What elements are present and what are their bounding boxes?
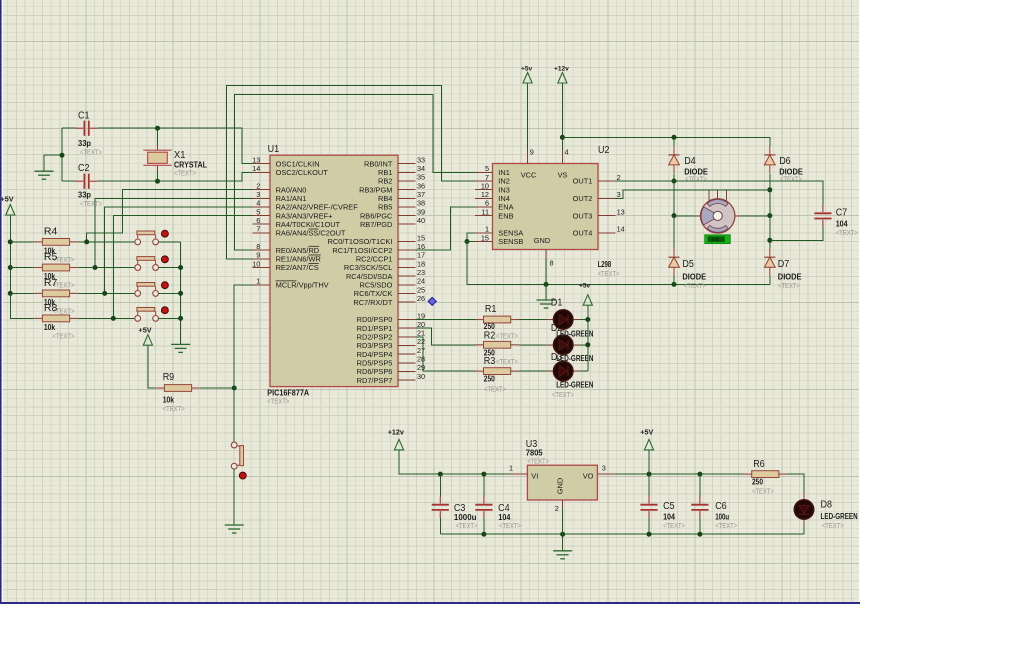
U1 pin 3 RA1/AN1 bbox=[253, 197, 270, 199]
diode D6 bbox=[764, 146, 775, 174]
svg-text:5: 5 bbox=[485, 164, 489, 173]
diode D5 bbox=[668, 248, 679, 276]
U2 pin 10 IN3 bbox=[475, 189, 492, 191]
wire +12v to VI row bbox=[399, 450, 510, 474]
resistor R8 bbox=[34, 315, 78, 322]
junction bbox=[481, 532, 486, 537]
svg-text:14: 14 bbox=[617, 225, 625, 234]
svg-text:15: 15 bbox=[481, 233, 489, 242]
svg-text:14: 14 bbox=[252, 164, 260, 173]
wire rail to R4 bbox=[10, 241, 34, 243]
svg-text:RD6/PSP6: RD6/PSP6 bbox=[357, 367, 393, 376]
svg-text:SENSB: SENSB bbox=[498, 237, 523, 246]
svg-text:RA4/T0CKI/C1OUT: RA4/T0CKI/C1OUT bbox=[276, 220, 341, 229]
U3 pin 1 VI bbox=[510, 473, 527, 475]
junction bbox=[8, 291, 13, 296]
svg-text:IN3: IN3 bbox=[498, 185, 510, 194]
wire C1-C2 left vertical bbox=[61, 128, 63, 181]
svg-text:2: 2 bbox=[256, 181, 260, 190]
wire R2 to D2 bbox=[519, 344, 546, 346]
U1 pin 7 RA6/AN4/SS/C2OUT bbox=[253, 232, 270, 234]
svg-text:OSC2/CLKOUT: OSC2/CLKOUT bbox=[276, 168, 329, 177]
U2 pin 14 OUT4 bbox=[598, 232, 615, 234]
U2 pin 13 OUT3 bbox=[598, 215, 615, 217]
U1 pin 27 RD4/PSP4 bbox=[398, 353, 415, 355]
junction bbox=[697, 532, 702, 537]
wire R8 to button bbox=[78, 317, 135, 319]
power +5v LED rail bbox=[583, 295, 592, 306]
U1 pin 28 RD5/PSP5 bbox=[398, 362, 415, 364]
svg-text:38: 38 bbox=[417, 199, 425, 208]
U1 pin 13 OSC1/CLKIN bbox=[253, 163, 270, 165]
junction bbox=[697, 472, 702, 477]
junction bbox=[60, 153, 65, 158]
U2 pin 5 IN1 bbox=[475, 171, 492, 173]
svg-text:<TEXT>: <TEXT> bbox=[598, 269, 620, 278]
svg-text:RC3/SCK/SCL: RC3/SCK/SCL bbox=[344, 263, 392, 272]
junction bbox=[8, 239, 13, 244]
U1 pin 18 RC3/SCK/SCL bbox=[398, 267, 415, 269]
svg-text:RC7/RX/DT: RC7/RX/DT bbox=[353, 298, 392, 307]
svg-text:ENA: ENA bbox=[498, 203, 513, 212]
resistor R6 bbox=[744, 471, 788, 478]
junction bbox=[585, 317, 590, 322]
wire motor left bbox=[674, 215, 695, 217]
svg-text:RC5/SDO: RC5/SDO bbox=[360, 281, 393, 290]
junction bbox=[585, 342, 590, 347]
U1 pin 8 RE0/AN5/RD bbox=[253, 249, 270, 251]
U1 pin 37 RB4 bbox=[398, 197, 415, 199]
junction bbox=[232, 386, 237, 391]
U1 pin 14 OSC2/CLKOUT bbox=[253, 171, 270, 173]
wire button to ground bbox=[233, 469, 235, 524]
svg-text:R1: R1 bbox=[485, 304, 497, 315]
ground button rail bbox=[171, 344, 190, 352]
svg-text:RB7/PGD: RB7/PGD bbox=[360, 220, 392, 229]
svg-text:MCLR/Vpp/THV: MCLR/Vpp/THV bbox=[276, 281, 329, 290]
svg-text:1: 1 bbox=[256, 277, 260, 286]
wire U3 GND down bbox=[562, 509, 564, 551]
svg-text:OUT3: OUT3 bbox=[573, 211, 593, 220]
capacitor C6 bbox=[691, 497, 708, 519]
wire C6 top bbox=[699, 474, 701, 497]
svg-text:<TEXT>: <TEXT> bbox=[80, 199, 102, 208]
wire SENSB bbox=[467, 242, 475, 285]
svg-text:RD7/PSP7: RD7/PSP7 bbox=[357, 376, 393, 385]
capacitor C1 bbox=[76, 121, 98, 136]
svg-text:LED-GREEN: LED-GREEN bbox=[821, 512, 858, 521]
crystal X1 bbox=[143, 145, 171, 170]
junction crystal bottom bbox=[155, 179, 160, 184]
junction crystal top bbox=[155, 126, 160, 131]
svg-text:<TEXT>: <TEXT> bbox=[780, 175, 802, 184]
svg-text:13: 13 bbox=[252, 155, 260, 164]
power +12v above VS bbox=[558, 73, 567, 84]
wire D2 to +5v rail bbox=[580, 344, 588, 346]
svg-text:250: 250 bbox=[484, 375, 496, 384]
junction bbox=[672, 135, 677, 140]
wire crystal bottom lead bbox=[157, 170, 159, 181]
wire D8 to rail bbox=[803, 527, 805, 535]
wire bottom ground rail bbox=[440, 533, 804, 535]
ground reset button bbox=[225, 525, 244, 533]
svg-text:9: 9 bbox=[530, 148, 534, 157]
svg-text:10: 10 bbox=[252, 259, 260, 268]
resistor R3 bbox=[475, 368, 519, 375]
svg-text:R8: R8 bbox=[44, 302, 58, 314]
junction bbox=[560, 532, 565, 537]
svg-text:24: 24 bbox=[417, 277, 425, 286]
resistor R2 bbox=[475, 341, 519, 348]
svg-text:RB3/PGM: RB3/PGM bbox=[359, 185, 392, 194]
wire motor right bbox=[740, 215, 770, 217]
wire C7 bottom to D6 leg bbox=[770, 226, 823, 240]
U2 pin 3 OUT2 bbox=[598, 197, 615, 199]
resistor R4 bbox=[34, 239, 78, 246]
U2 pin 4 VS bbox=[561, 150, 563, 163]
junction bbox=[93, 265, 98, 270]
svg-text:D1: D1 bbox=[551, 298, 563, 309]
svg-text:<TEXT>: <TEXT> bbox=[663, 521, 685, 530]
svg-text:33: 33 bbox=[417, 155, 425, 164]
ground near C1/C2 bbox=[35, 171, 54, 179]
svg-text:RD4/PSP4: RD4/PSP4 bbox=[357, 350, 393, 359]
wire OUT2 jog to D6 leg bbox=[615, 190, 769, 199]
wire +5V left rail bbox=[10, 215, 34, 318]
svg-text:X1: X1 bbox=[174, 150, 186, 161]
wire R4 to button bbox=[78, 241, 135, 243]
svg-text:IN1: IN1 bbox=[498, 168, 510, 177]
wire crystal top lead bbox=[157, 128, 159, 145]
svg-text:RB2: RB2 bbox=[378, 177, 392, 186]
wire +5V down bbox=[648, 450, 650, 474]
svg-text:<TEXT>: <TEXT> bbox=[496, 357, 518, 366]
svg-text:R6: R6 bbox=[753, 459, 765, 470]
wire C4 top bbox=[483, 474, 485, 497]
wire +12v rail to D6 bbox=[562, 137, 769, 146]
svg-text:D8: D8 bbox=[821, 500, 833, 511]
svg-text:<TEXT>: <TEXT> bbox=[456, 521, 478, 530]
svg-text:D7: D7 bbox=[778, 259, 790, 270]
cursor marker bbox=[428, 298, 436, 306]
wire R6 to D8 bbox=[787, 474, 804, 492]
wire RD0 to R1 bbox=[415, 319, 475, 321]
U1 pin 24 RC5/SDO bbox=[398, 284, 415, 286]
svg-text:+5V: +5V bbox=[139, 326, 152, 335]
capacitor C4 bbox=[475, 497, 492, 519]
diode D4 bbox=[668, 146, 679, 174]
U2 pin 7 IN2 bbox=[475, 180, 492, 182]
svg-text:11: 11 bbox=[481, 207, 489, 216]
wire button row 1 to rail bbox=[159, 241, 181, 243]
svg-text:4: 4 bbox=[565, 148, 569, 157]
capacitor C5 bbox=[640, 497, 657, 519]
svg-text:16: 16 bbox=[417, 242, 425, 251]
junction bbox=[84, 239, 89, 244]
svg-text:40: 40 bbox=[417, 216, 425, 225]
svg-text:C6: C6 bbox=[715, 501, 727, 512]
motor speed display bbox=[705, 235, 730, 244]
wire RA2 from R7 bbox=[105, 207, 253, 294]
U2 pin 1 SENSA bbox=[475, 232, 492, 234]
wire RA1 from R5 bbox=[95, 198, 253, 267]
junction bbox=[672, 179, 677, 184]
svg-text:+5v: +5v bbox=[521, 66, 533, 73]
svg-text:D4: D4 bbox=[684, 156, 696, 167]
junction bbox=[647, 532, 652, 537]
U1 pin 1 MCLR/Vpp/THV bbox=[253, 284, 270, 286]
svg-text:C7: C7 bbox=[836, 208, 848, 219]
wire +5V to R9 bbox=[148, 345, 156, 388]
svg-text:<TEXT>: <TEXT> bbox=[163, 404, 185, 413]
svg-text:3: 3 bbox=[617, 190, 621, 199]
motor M1 bbox=[695, 190, 740, 233]
junction bbox=[178, 316, 183, 321]
ground U3 bbox=[553, 551, 572, 559]
U2 pin 9 VCC bbox=[527, 150, 529, 163]
U1 pin 19 RD0/PSP0 bbox=[398, 319, 415, 321]
wire R7 to button bbox=[78, 292, 135, 294]
svg-text:<TEXT>: <TEXT> bbox=[684, 281, 706, 290]
svg-text:+5V: +5V bbox=[1, 195, 14, 204]
svg-text:2: 2 bbox=[617, 173, 621, 182]
resistor R7 bbox=[34, 290, 78, 297]
wire C1 row to OSC1 bbox=[62, 128, 253, 163]
svg-text:VCC: VCC bbox=[521, 170, 537, 179]
U1 pin 36 RB3/PGM bbox=[398, 189, 415, 191]
resistor R5 bbox=[34, 264, 78, 271]
wire +12v to VS bbox=[561, 83, 563, 150]
wire R9 to MCLR node bbox=[200, 387, 234, 389]
svg-text:GND: GND bbox=[534, 236, 550, 245]
U3 pin 3 VO bbox=[597, 473, 614, 475]
svg-text:6: 6 bbox=[485, 199, 489, 208]
svg-text:RD3/PSP3: RD3/PSP3 bbox=[357, 341, 393, 350]
svg-text:GND: GND bbox=[555, 478, 564, 494]
svg-text:VS: VS bbox=[558, 170, 568, 179]
svg-text:<TEXT>: <TEXT> bbox=[836, 228, 858, 237]
wire ground branch bbox=[44, 155, 62, 171]
wire button row 2 to rail bbox=[159, 267, 181, 269]
wire SENSA jog bbox=[467, 233, 475, 242]
svg-text:<TEXT>: <TEXT> bbox=[496, 332, 518, 341]
power +5v above VCC bbox=[523, 73, 532, 84]
svg-text:<TEXT>: <TEXT> bbox=[822, 521, 844, 530]
U1 pin 6 RA4/T0CKI/C1OUT bbox=[253, 223, 270, 225]
U1 pin 17 RC2/CCP1 bbox=[398, 258, 415, 260]
LED D1 bbox=[546, 310, 580, 329]
wire C5 bottom bbox=[648, 518, 650, 534]
wire R1 to D1 bbox=[519, 319, 546, 321]
power +5V bottom bbox=[644, 439, 653, 450]
svg-text:R2: R2 bbox=[484, 331, 496, 342]
power +12v bottom bbox=[394, 439, 403, 450]
wire button ground rail bbox=[180, 242, 182, 344]
wire C5 top bbox=[648, 474, 650, 497]
svg-text:20: 20 bbox=[417, 320, 425, 329]
junction bbox=[647, 472, 652, 477]
U1 pin 34 RB1 bbox=[398, 171, 415, 173]
svg-text:RB0/INT: RB0/INT bbox=[364, 159, 393, 168]
wire RC1 to ENA bbox=[415, 207, 475, 250]
svg-text:RE0/AN5/RD: RE0/AN5/RD bbox=[276, 246, 320, 255]
wire button row 4 to rail bbox=[159, 317, 181, 319]
svg-text:VI: VI bbox=[531, 472, 538, 481]
LED D3 bbox=[546, 361, 580, 380]
svg-text:RB5: RB5 bbox=[378, 203, 392, 212]
wire VO row bbox=[615, 473, 744, 475]
junction bbox=[465, 239, 470, 244]
junction bbox=[8, 265, 13, 270]
junction bbox=[767, 238, 772, 243]
U2 pin 12 IN4 bbox=[475, 197, 492, 199]
junction bbox=[481, 472, 486, 477]
wire C3 bottom bbox=[439, 518, 441, 534]
wire D4-D5 leg bbox=[673, 174, 675, 249]
op-amp U2 body (L298) bbox=[493, 164, 599, 250]
svg-text:RE2/AN7/CS: RE2/AN7/CS bbox=[276, 263, 319, 272]
junction bbox=[178, 265, 183, 270]
push button reset bbox=[231, 442, 246, 479]
junction bbox=[544, 282, 549, 287]
U2 pin 2 OUT1 bbox=[598, 180, 615, 182]
svg-text:<TEXT>: <TEXT> bbox=[778, 281, 800, 290]
svg-text:36: 36 bbox=[417, 181, 425, 190]
U1 pin 4 RA2/AN2/VREF-/CVREF bbox=[253, 206, 270, 208]
junction bbox=[767, 213, 772, 218]
wire D3 to +5v rail bbox=[580, 370, 588, 372]
svg-text:4: 4 bbox=[256, 199, 260, 208]
svg-text:<TEXT>: <TEXT> bbox=[174, 169, 196, 178]
svg-text:R3: R3 bbox=[484, 356, 496, 367]
U3 pin 2 GND bbox=[562, 500, 564, 509]
svg-text:10: 10 bbox=[481, 181, 489, 190]
svg-text:22: 22 bbox=[417, 337, 425, 346]
svg-text:R4: R4 bbox=[44, 225, 58, 237]
U1 pin 5 RA3/AN3/VREF+ bbox=[253, 215, 270, 217]
svg-text:26: 26 bbox=[417, 294, 425, 303]
U1 pin 40 RB7/PGD bbox=[398, 223, 415, 225]
svg-text:<TEXT>: <TEXT> bbox=[267, 397, 289, 406]
wire OUT1 to C7 top bbox=[615, 181, 823, 205]
svg-text:R9: R9 bbox=[163, 372, 175, 383]
svg-text:<TEXT>: <TEXT> bbox=[752, 487, 774, 496]
U1 pin 20 RD1/PSP1 bbox=[398, 327, 415, 329]
U1 pin 25 RC6/TX/CK bbox=[398, 293, 415, 295]
svg-text:<TEXT>: <TEXT> bbox=[80, 148, 102, 157]
svg-text:VO: VO bbox=[583, 472, 594, 481]
junction bbox=[560, 135, 565, 140]
U1 pin 23 RC4/SDI/SDA bbox=[398, 275, 415, 277]
wire +5v LED rail bbox=[587, 305, 589, 371]
junction bbox=[102, 291, 107, 296]
svg-text:D5: D5 bbox=[682, 259, 694, 270]
ground U2 bbox=[537, 300, 556, 308]
junction bbox=[672, 213, 677, 218]
capacitor C2 bbox=[76, 174, 98, 189]
wire RA3 from R8 bbox=[113, 216, 252, 319]
svg-text:<TEXT>: <TEXT> bbox=[527, 457, 549, 466]
svg-text:7: 7 bbox=[256, 225, 260, 234]
U2 pin 11 ENB bbox=[475, 215, 492, 217]
svg-text:<TEXT>: <TEXT> bbox=[499, 521, 521, 530]
wire C6 bottom bbox=[699, 518, 701, 534]
svg-text:U2: U2 bbox=[598, 145, 610, 156]
push button row 1 bbox=[135, 230, 169, 245]
svg-text:3: 3 bbox=[602, 464, 606, 473]
junction bbox=[438, 472, 443, 477]
U1 pin 38 RB5 bbox=[398, 206, 415, 208]
svg-text:U1: U1 bbox=[268, 144, 280, 155]
svg-text:15: 15 bbox=[417, 233, 425, 242]
wire +5v to VCC bbox=[527, 83, 529, 150]
svg-text:<TEXT>: <TEXT> bbox=[484, 385, 506, 394]
U1 pin 39 RB6/PGC bbox=[398, 215, 415, 217]
junction bbox=[767, 187, 772, 192]
junction bbox=[178, 291, 183, 296]
U1 pin 10 RE2/AN7/CS bbox=[253, 267, 270, 269]
svg-text:6: 6 bbox=[256, 216, 260, 225]
wire C2 row to OSC2 bbox=[62, 172, 253, 181]
svg-text:2: 2 bbox=[555, 504, 559, 513]
wire D4 leg top bbox=[673, 137, 675, 146]
wire RE0 to IN1 loop bbox=[235, 95, 476, 251]
svg-text:18: 18 bbox=[417, 259, 425, 268]
wire R5 to button bbox=[78, 267, 135, 269]
svg-text:<TEXT>: <TEXT> bbox=[715, 521, 737, 530]
U1 pin 2 RA0/AN0 bbox=[253, 189, 270, 191]
svg-text:250: 250 bbox=[752, 478, 764, 487]
resistor R1 bbox=[475, 316, 519, 323]
svg-text:L298: L298 bbox=[598, 260, 612, 269]
U1 pin 16 RC1/T1OSI/CCP2 bbox=[398, 249, 415, 251]
wire RE1 to IN2 loop bbox=[226, 85, 475, 259]
wire C3 top bbox=[439, 474, 441, 497]
svg-text:+12v: +12v bbox=[388, 427, 404, 436]
svg-text:OSC1/CLKIN: OSC1/CLKIN bbox=[276, 159, 320, 168]
junction bbox=[672, 282, 677, 287]
svg-text:8: 8 bbox=[550, 259, 554, 268]
LED D8 bbox=[794, 493, 813, 527]
wire C4 bottom bbox=[483, 518, 485, 534]
svg-text:C5: C5 bbox=[663, 501, 675, 512]
U1 pin 30 RD7/PSP7 bbox=[398, 379, 415, 381]
svg-text:35: 35 bbox=[417, 173, 425, 182]
U2 pin 8 GND bbox=[545, 250, 547, 259]
capacitor C3 bbox=[432, 497, 449, 519]
U2 pin 6 ENA bbox=[475, 206, 492, 208]
wire RD1 to R2 bbox=[415, 328, 475, 345]
svg-text:+5V: +5V bbox=[640, 427, 653, 436]
wire D6-D7 leg bbox=[769, 174, 771, 249]
svg-text:1: 1 bbox=[509, 464, 513, 473]
wire rail to R5 bbox=[10, 267, 34, 269]
power +5V top-left bbox=[6, 205, 15, 216]
svg-text:13: 13 bbox=[617, 207, 625, 216]
svg-text:8: 8 bbox=[256, 242, 260, 251]
junction bbox=[111, 316, 116, 321]
wire D7 to rail bbox=[769, 276, 771, 284]
wire rail to R7 bbox=[10, 292, 34, 294]
U1 pin 22 RD3/PSP3 bbox=[398, 344, 415, 346]
LED D2 bbox=[546, 335, 580, 354]
svg-text:R7: R7 bbox=[44, 277, 58, 289]
power +5V near R9 bbox=[143, 335, 152, 346]
svg-text:RD1/PSP1: RD1/PSP1 bbox=[357, 324, 393, 333]
wire ground rail under U2 bbox=[467, 283, 770, 285]
svg-text:<TEXT>: <TEXT> bbox=[685, 175, 707, 184]
U1 pin 26 RC7/RX/DT bbox=[398, 301, 415, 303]
